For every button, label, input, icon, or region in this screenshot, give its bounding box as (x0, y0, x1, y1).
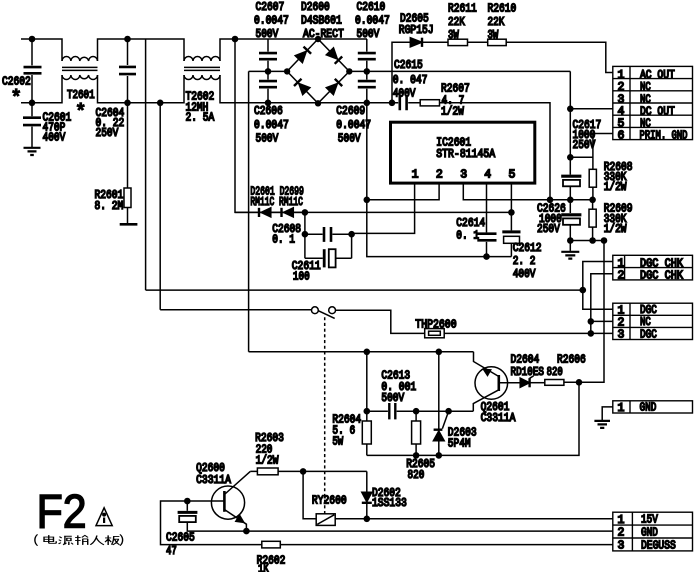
svg-text:2. 2: 2. 2 (513, 255, 536, 268)
svg-text:DEGUSS: DEGUSS (641, 539, 676, 552)
diode D2600 arm top-right (326, 48, 337, 59)
svg-text:RM11C RM11C: RM11C RM11C (250, 196, 303, 209)
wire DGC CHK pin1 to DGC pin1 (583, 290, 613, 309)
diode D2600 arm bottom-left (299, 84, 310, 95)
svg-text:STR-81145A: STR-81145A (436, 148, 495, 161)
junction C2604 bottom (124, 100, 131, 107)
wire relay coil left (303, 471, 316, 518)
junction gnd C2626 (567, 237, 574, 244)
svg-text:500V: 500V (357, 28, 380, 41)
svg-text:2: 2 (618, 527, 625, 540)
svg-text:0.0047: 0.0047 (254, 119, 289, 132)
capacitor C2612 electrolytic (502, 230, 520, 233)
junction relay branch (300, 468, 307, 475)
wire mid vertical x366.8 (366, 352, 368, 421)
svg-text:DC OUT: DC OUT (640, 106, 675, 119)
wire pin4 stem (486, 183, 488, 232)
svg-text:22K: 22K (448, 16, 465, 29)
svg-text:1: 1 (618, 304, 625, 317)
capacitor C2617 electrolytic (569, 157, 571, 174)
diode D2600 arm top-left (295, 51, 306, 62)
junction D2603 bottom (436, 452, 443, 459)
ground primary (569, 241, 571, 251)
junction pin5 snubber line (508, 209, 515, 216)
wire GND pin to ground (602, 407, 613, 421)
svg-text:R2606: R2606 (557, 354, 586, 367)
junction R2608 bottom (589, 197, 596, 204)
junction pin6 branch (567, 154, 574, 161)
junction Q2600 base C2605 (184, 498, 191, 505)
svg-text:1: 1 (412, 169, 419, 182)
wire C2613 line to Q2601 (416, 410, 473, 412)
svg-text:DGC: DGC (640, 328, 657, 341)
svg-text:500V: 500V (256, 28, 279, 41)
junction C2602 bottom (29, 100, 36, 107)
svg-text:C2615: C2615 (394, 59, 423, 72)
wire R2610 to AC OUT pin1 (506, 42, 613, 72)
svg-text:2: 2 (618, 316, 625, 329)
svg-text:8. 2M: 8. 2M (95, 200, 124, 213)
wire D2605 branch up (392, 42, 410, 103)
wire bottom line y256.6 (367, 200, 512, 257)
resistor R2601 (127, 103, 129, 188)
svg-text:NC: NC (640, 93, 651, 106)
junction pin4 (567, 106, 574, 113)
svg-text:5: 5 (509, 169, 516, 182)
resistor R2607 (420, 100, 439, 106)
wire gnd bus y240.5 (570, 240, 604, 242)
svg-text:3W: 3W (488, 29, 499, 42)
junction gnd R2609 (589, 237, 596, 244)
junction C2614 bottom (483, 253, 490, 260)
diode D2602 (366, 471, 368, 492)
connector J power table (613, 512, 693, 551)
wire 15V line (335, 518, 613, 520)
svg-text:C2614: C2614 (456, 217, 485, 230)
svg-text:R2611: R2611 (448, 3, 477, 16)
relay RY2600 coil (316, 514, 335, 526)
capacitor C2608 (305, 233, 352, 235)
svg-text:1: 1 (618, 402, 625, 415)
junction C2613 left (364, 408, 371, 415)
capacitor C2626 electrolytic (569, 200, 571, 213)
svg-text:0.0047: 0.0047 (355, 15, 390, 28)
wire bridge right to DC rail (349, 70, 570, 72)
transistor Q2600 (211, 486, 244, 519)
wire pin3 stem gnd line (463, 183, 592, 200)
svg-text:*: * (11, 87, 22, 109)
svg-text:AC OUT: AC OUT (640, 69, 675, 82)
svg-text:C2607: C2607 (256, 1, 285, 14)
svg-text:1: 1 (618, 514, 625, 527)
resistor R2611 (448, 39, 468, 45)
resistor R2608 (589, 169, 596, 187)
resistor R2604 (362, 421, 371, 444)
svg-text:NC: NC (640, 316, 651, 329)
junction DGC pin2 (588, 318, 595, 325)
connector J GND table (613, 401, 693, 413)
wire rail x235 to diode line (235, 39, 305, 212)
wire pin5 stem (510, 183, 512, 230)
svg-text:1/2W: 1/2W (441, 106, 464, 119)
wire C2608 right vertical (351, 233, 353, 258)
switch S relay contact (312, 307, 319, 314)
svg-text:0. 1: 0. 1 (456, 230, 479, 243)
wire C2608 left vertical (304, 212, 306, 258)
svg-text:DGC: DGC (640, 304, 657, 317)
svg-text:R2610: R2610 (488, 3, 517, 16)
wire rail x366.8 down to pin2 (366, 103, 368, 200)
svg-text:2. 5A: 2. 5A (186, 112, 215, 125)
svg-text:250V: 250V (537, 223, 560, 236)
junction R2605 top (413, 408, 420, 415)
capacitor C2605 electrolytic (186, 501, 188, 511)
wire R2606 to rail (564, 381, 604, 383)
junction DGC pin3 THP (588, 330, 595, 337)
capacitor C2610 (366, 39, 368, 71)
wire rail x248.6 down (248, 71, 250, 351)
warning triangle (96, 508, 112, 526)
diode D2699 (280, 208, 282, 217)
svg-text:1/2W: 1/2W (604, 223, 627, 236)
diode D2600 arm bottom-right (326, 84, 337, 95)
capacitor C2609 (366, 71, 368, 102)
svg-text:6: 6 (618, 130, 625, 143)
junction C2608 left (302, 231, 309, 238)
junction bridge left (284, 68, 290, 74)
junction top wire x235 (232, 36, 239, 43)
diode D2605 (410, 38, 422, 47)
svg-text:3: 3 (460, 169, 467, 182)
junction D2602 15V (364, 516, 371, 523)
svg-text:0.0047: 0.0047 (336, 119, 371, 132)
capacitor C2606 (267, 71, 269, 102)
svg-text:C2605: C2605 (166, 532, 195, 545)
wire R2611 to R2610 (468, 41, 488, 43)
junction D2605 branch (389, 100, 396, 107)
svg-text:0.0047: 0.0047 (254, 15, 289, 28)
junction C2608 right (348, 231, 355, 238)
svg-text:C3311A: C3311A (481, 412, 516, 425)
thermistor THP2600 (425, 329, 445, 338)
svg-text:3: 3 (618, 329, 625, 342)
svg-text:3W: 3W (448, 29, 459, 42)
svg-text:C2606: C2606 (254, 105, 283, 118)
junction bridge top (315, 36, 321, 42)
diode D2604 zener (520, 378, 529, 387)
svg-text:DGC CHK: DGC CHK (640, 257, 683, 270)
ground C2601 (24, 148, 41, 155)
connector J AC OUT table (613, 66, 693, 139)
wire DC rail corner to pin4 (570, 71, 613, 108)
svg-text:GND: GND (640, 402, 657, 415)
svg-text:400V: 400V (513, 268, 536, 281)
svg-text:3: 3 (618, 93, 625, 106)
junction C2604 top (124, 36, 131, 43)
junction y351.8 D2603 (436, 349, 443, 356)
capacitor C2601 (31, 103, 33, 147)
wire dashed relay actuator (324, 317, 326, 514)
resistor R2602 (262, 541, 281, 548)
junction gnd rail (601, 237, 608, 244)
resistor R2605 (415, 411, 417, 421)
junction C2606 bottom (265, 100, 272, 107)
wire bottom bus y455.4 (367, 382, 579, 455)
wire D2604 to R2606 (530, 382, 545, 384)
junction bridge right (346, 68, 352, 74)
svg-text:22K: 22K (488, 16, 505, 29)
junction C2610-C2609 mid (364, 68, 371, 75)
junction C2602 top (29, 36, 36, 43)
junction y351.8 x366.8 (364, 349, 371, 356)
svg-text:250V: 250V (573, 139, 596, 152)
svg-text:D2604: D2604 (511, 354, 540, 367)
svg-text:400V: 400V (43, 132, 66, 145)
svg-text:2: 2 (618, 269, 625, 282)
terminal bar R2601 end (120, 223, 138, 226)
wire DGC CHK pin1 (583, 262, 613, 291)
wire rail x160 down (159, 103, 161, 310)
junction emitter gnd (243, 528, 250, 535)
connector J DGC CHK table (613, 255, 693, 280)
capacitor C2614 (477, 234, 496, 241)
inductor T2601 common-mode choke (62, 57, 98, 61)
wire deguss line to connector (280, 544, 613, 546)
wire DGC pin2 (591, 320, 613, 322)
svg-text:2: 2 (618, 81, 625, 94)
wire AC line 1 top (21, 39, 367, 61)
svg-text:820: 820 (547, 366, 563, 379)
svg-text:4: 4 (618, 106, 625, 119)
svg-text:1/2W: 1/2W (256, 455, 279, 468)
svg-text:3: 3 (618, 540, 625, 553)
capacitor C2602 (31, 39, 33, 103)
junction R2606 node (576, 379, 583, 386)
junction diode line C2608 (302, 209, 309, 216)
svg-text:C3311A: C3311A (196, 474, 231, 487)
wire AC line 2 bottom (21, 75, 392, 103)
bridge rectifier D2600 frame (287, 39, 349, 103)
wire mid to bridge left (249, 70, 288, 72)
svg-text:C2612: C2612 (513, 242, 542, 255)
svg-text:47: 47 (166, 545, 177, 558)
svg-text:1: 1 (618, 257, 625, 270)
svg-text:0. 047: 0. 047 (393, 74, 428, 87)
svg-text:1SS133: 1SS133 (372, 497, 407, 510)
svg-text:RGP15J: RGP15J (399, 24, 434, 37)
wire snubber top line y351.8 (249, 351, 474, 353)
wire DGC pin3 (591, 332, 613, 334)
junction DGC CHK1 line (580, 287, 587, 294)
svg-text:NC: NC (640, 81, 651, 94)
junction C2607-C2606 mid (265, 68, 272, 75)
svg-text:D4SB601: D4SB601 (301, 15, 342, 28)
svg-text:GND: GND (641, 527, 658, 540)
svg-text:5P4M: 5P4M (448, 438, 471, 451)
capacitor C2607 (267, 39, 269, 71)
wire gnd line to connector (246, 530, 612, 532)
svg-text:THP2600: THP2600 (415, 318, 456, 331)
svg-text:820: 820 (408, 469, 425, 482)
svg-text:500V: 500V (338, 133, 361, 146)
svg-text:D2600: D2600 (301, 1, 330, 14)
svg-text:AC-RECT: AC-RECT (303, 28, 344, 41)
junction bridge bottom (315, 100, 321, 106)
svg-text:500V: 500V (381, 392, 404, 405)
junction C2609 bottom (364, 100, 371, 107)
svg-text:2: 2 (436, 169, 443, 182)
wire pin2 stem (367, 183, 439, 200)
thyristor D2603 (438, 352, 440, 429)
junction R2607 gnd (547, 197, 554, 204)
svg-text:C2610: C2610 (357, 1, 386, 14)
wire rail x604 down (579, 241, 604, 383)
ground secondary (594, 421, 610, 428)
transistor Q2601 (475, 367, 508, 400)
svg-text:PRIM. GND: PRIM. GND (640, 130, 688, 143)
svg-text:RY2600: RY2600 (312, 495, 347, 508)
svg-text:15V: 15V (641, 514, 658, 527)
resistor R2610 (488, 39, 507, 45)
svg-text:1: 1 (618, 69, 625, 82)
svg-text:5W: 5W (332, 436, 343, 449)
capacitor C2611 electrolytic (305, 257, 352, 259)
junction pin2 rail (364, 197, 371, 204)
capacitor C2615 (392, 102, 420, 104)
junction lower wire x160 (157, 100, 164, 107)
svg-text:0. 1: 0. 1 (272, 234, 295, 247)
wire collector line y471.4 (250, 470, 366, 472)
svg-text:250V: 250V (96, 127, 119, 140)
svg-text:1K: 1K (258, 563, 269, 572)
svg-text:400V: 400V (393, 88, 416, 101)
capacitor C2613 (367, 410, 416, 412)
wire C2617 stem upper (569, 109, 571, 158)
svg-text:C2609: C2609 (336, 105, 365, 118)
junction R2605 bottom (413, 452, 420, 459)
wire DGC CHK pin2 vertical (591, 274, 613, 334)
wire switch to THP (336, 310, 425, 333)
wire base loop deguss (161, 501, 262, 545)
svg-text:F2: F2 (37, 485, 87, 538)
svg-text:1/2W: 1/2W (604, 181, 627, 194)
connector J DGC table (613, 303, 693, 339)
wire D2605 to R2611 (422, 41, 448, 43)
wire snubber line y211.7 (235, 211, 511, 213)
svg-text:100: 100 (293, 271, 310, 284)
junction D2603 gate (445, 408, 452, 415)
svg-text:RD10ES: RD10ES (511, 366, 545, 379)
op-amp U1 IC2601 box (391, 122, 535, 183)
wire R2607 to gnd line (440, 103, 551, 200)
resistor R2609 (592, 200, 594, 209)
capacitor C2604 (127, 39, 129, 103)
resistor R2603 (257, 468, 278, 475)
wire DGC-CHK line y290 (146, 289, 583, 291)
inductor T2602 line filter (184, 57, 220, 62)
resistor R2606 (545, 380, 564, 386)
svg-text:500V: 500V (256, 133, 279, 146)
wire rail x145.6 down (145, 39, 147, 290)
label board name chinese (35, 534, 123, 545)
svg-text:4: 4 (484, 169, 491, 182)
wire pin6 jog (570, 134, 613, 170)
wire pin1 stem (352, 183, 415, 233)
junction C2617 bottom (567, 197, 574, 204)
svg-text:DGC CHK: DGC CHK (640, 269, 683, 282)
diode D2601 (258, 208, 260, 217)
svg-text:*: * (75, 101, 86, 123)
wire THP to DGC pin3 (444, 332, 591, 334)
wire switch line y310 (160, 309, 311, 311)
